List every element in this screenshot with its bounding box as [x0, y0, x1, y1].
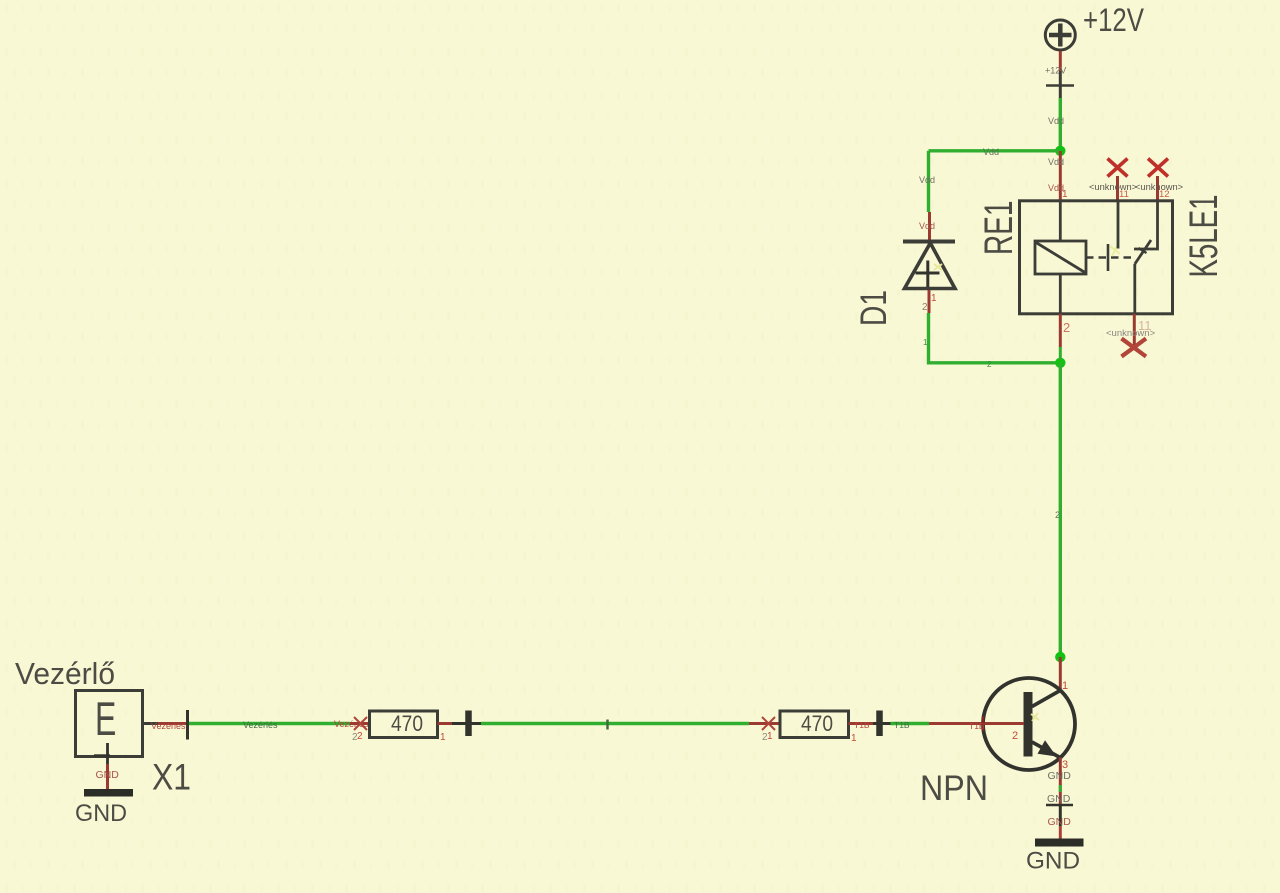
transistor origin mark [1031, 713, 1039, 721]
mid wire tick [606, 720, 608, 730]
svg-text:470: 470 [391, 711, 423, 736]
svg-text:1: 1 [1062, 189, 1068, 200]
ground bar under transistor [1035, 839, 1084, 847]
svg-text:RE1: RE1 [977, 201, 1021, 256]
svg-text:11: 11 [1119, 189, 1129, 200]
R1 left pin cross [354, 717, 367, 730]
transistor emitter line [1032, 742, 1060, 758]
relay contact blade [1135, 240, 1151, 264]
junction Vdd top [1055, 146, 1065, 156]
svg-text:GND: GND [75, 800, 127, 827]
svg-text:<unknown>: <unknown> [1106, 328, 1156, 339]
relay contact NC lead [1117, 200, 1120, 249]
R1 right pin red [438, 722, 453, 725]
power pin dark segment [1059, 71, 1062, 98]
svg-text:2: 2 [357, 731, 363, 742]
svg-text:Vezérlés: Vezérlés [151, 721, 186, 731]
svg-text:Vdd: Vdd [919, 221, 935, 231]
transistor emitter arrow [1038, 740, 1057, 756]
transistor base bar [1024, 692, 1033, 757]
svg-text:2: 2 [987, 360, 992, 369]
svg-text:470: 470 [801, 711, 833, 736]
junction below relay [1055, 358, 1065, 368]
base pin cross [982, 716, 985, 731]
green wire remnant [1059, 785, 1062, 792]
wire R2 to base green [891, 722, 930, 725]
R1 right dark wire [452, 722, 481, 725]
svg-text:X1: X1 [152, 757, 191, 798]
X1 right pin red [143, 722, 158, 725]
diode D1 cathode bar [903, 240, 955, 244]
svg-text:+12V: +12V [1083, 2, 1145, 38]
svg-text:1: 1 [931, 293, 937, 304]
svg-text:1: 1 [440, 732, 446, 743]
transistor collector line [1032, 690, 1061, 707]
svg-text:1: 1 [851, 733, 857, 744]
relay RE1 pin 1 red from junction to box [1059, 151, 1062, 200]
svg-text:2: 2 [922, 302, 928, 313]
power pin crossbar [1046, 84, 1074, 87]
gnd pin dark segment [1059, 804, 1062, 826]
pin red below power circle [1059, 51, 1062, 71]
R2 right pin red [849, 722, 874, 725]
svg-text:Vdd: Vdd [1048, 116, 1064, 126]
relay no-connect pin stubs red [1116, 176, 1119, 200]
X1 bottom pin tick [94, 754, 110, 756]
svg-text:T1B: T1B [854, 720, 870, 730]
X1 bottom pin [106, 743, 109, 764]
no-connect X mark right [1148, 159, 1168, 177]
relay contact NO lead [1134, 200, 1158, 249]
relay armature dashed link [1086, 256, 1134, 259]
transistor NPN circle [983, 678, 1075, 770]
relay coil bottom lead [1059, 274, 1062, 314]
svg-text:GND: GND [1047, 793, 1071, 805]
X1 right pin red part [158, 722, 187, 725]
relay coil box [1035, 241, 1086, 274]
svg-text:+12V: +12V [1045, 66, 1066, 76]
svg-text:T1B: T1B [894, 720, 910, 730]
svg-text:12: 12 [1159, 189, 1170, 200]
wire R1 to R2 green [481, 722, 749, 725]
svg-text:1: 1 [767, 731, 773, 742]
svg-text:NPN: NPN [920, 769, 988, 808]
relay common pin red below box [1133, 314, 1136, 347]
diode D1 triangle [905, 243, 956, 289]
relay armature cross [1107, 244, 1110, 271]
svg-text:<unknown>: <unknown> [1089, 182, 1137, 192]
svg-text:K5LE1: K5LE1 [1182, 195, 1226, 278]
base pin red wire [929, 722, 1024, 725]
relay RE1 box [1020, 201, 1173, 314]
wire Vdd horizontal to diode branch [929, 149, 1061, 152]
junction at collector [1055, 652, 1065, 662]
relay origin mark [1110, 244, 1120, 256]
svg-text:E: E [95, 693, 116, 746]
svg-text:Vdd: Vdd [983, 147, 999, 157]
svg-text:Vezérlő: Vezérlő [15, 656, 115, 691]
power symbol +12V circle [1045, 20, 1075, 50]
wire Vdd vertical down to diode [927, 151, 930, 212]
R2 left pin cross [762, 717, 775, 730]
wire Vezérlés green [189, 722, 350, 725]
svg-text:D1: D1 [853, 290, 894, 326]
svg-text:Vdd: Vdd [919, 175, 935, 185]
svg-text:Vdd: Vdd [1048, 157, 1064, 167]
relay pin 2 red below box [1059, 314, 1062, 347]
diode D1 origin mark [934, 264, 942, 270]
no-connect X mark left [1108, 159, 1128, 177]
wire diode anode down and right to junction [929, 313, 1061, 363]
no-connect X mark bottom [1122, 339, 1147, 357]
emitter pin red [1059, 758, 1062, 805]
R1 pin end tick [465, 711, 472, 737]
svg-text:T1B: T1B [969, 721, 985, 731]
relay coil top lead [1059, 200, 1062, 241]
relay coil diagonal [1036, 243, 1085, 273]
wire Vdd vertical from power to junction [1059, 98, 1062, 151]
svg-text:1: 1 [923, 338, 928, 347]
base pin end cross [1026, 716, 1029, 731]
resistor R2 box [780, 711, 849, 738]
ground bar under X1 [84, 789, 133, 797]
svg-text:2: 2 [1055, 510, 1060, 520]
diode D1 anode pin red [928, 290, 931, 313]
svg-text:2: 2 [1063, 320, 1070, 335]
connector X1 box [76, 691, 143, 757]
X1 pin end tick [186, 710, 189, 740]
svg-text:GND: GND [1048, 816, 1072, 828]
relay common lead [1133, 264, 1136, 314]
R2 pin end tick [876, 711, 883, 737]
wire long vertical to transistor [1059, 363, 1062, 657]
svg-text:Vezérlés: Vezérlés [243, 720, 278, 730]
relay blade tick [1139, 248, 1147, 253]
svg-text:2: 2 [1012, 730, 1018, 742]
svg-text:GND: GND [96, 769, 120, 781]
R2 left pin red [749, 722, 780, 725]
svg-text:GND: GND [1048, 770, 1072, 782]
X1 gnd pin red [106, 764, 109, 790]
diode D1 anode pin cross [926, 261, 929, 288]
collector pin red [1059, 657, 1062, 691]
R2 right dark wire [873, 722, 891, 725]
diode D1 cathode pin red [928, 212, 931, 240]
R1 left pin red [350, 722, 369, 725]
gnd pin crossbar [1046, 804, 1073, 807]
resistor R1 box [370, 711, 438, 738]
svg-text:GND: GND [1026, 848, 1080, 875]
